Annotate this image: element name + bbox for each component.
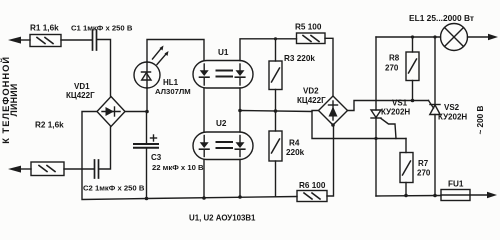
svg-text:22 мкФ х 10 В: 22 мкФ х 10 В (152, 163, 204, 172)
resistor R1 (30, 35, 61, 47)
wire VD1 right vertex to node A (125, 111, 147, 113)
svg-text:HL1: HL1 (163, 78, 179, 87)
capacitor C1 (93, 30, 97, 50)
bridge rectifier VD1 (97, 97, 125, 127)
arrow mains top (468, 34, 499, 40)
wire R2 to C2 (64, 168, 94, 170)
lamp EL1 (441, 24, 468, 51)
svg-text:270: 270 (385, 64, 399, 73)
wire node A up to HL1 (146, 88, 148, 112)
bottom-right rail (376, 195, 441, 198)
svg-text:FU1: FU1 (448, 180, 464, 189)
wire U2 photo pin down to bottom rail (239, 160, 241, 198)
svg-text:КУ202Н: КУ202Н (381, 108, 410, 117)
LED HL1 (134, 62, 160, 88)
arrow to telephone line (bottom) (8, 166, 31, 173)
wire VD2 left vertex to R7/VS1 gate node (312, 111, 406, 139)
wire U2 led pin down to bottom rail (203, 160, 205, 199)
thyristor VS2 gate wire (429, 101, 434, 109)
VD2 bottom junction dot (331, 123, 335, 127)
optocoupler U2 (193, 132, 253, 160)
wire U1 photo pin down to U2 (239, 88, 241, 132)
svg-text:R8: R8 (389, 54, 400, 63)
wire R6 to VD2 bottom (327, 125, 334, 196)
resistor R5 (297, 33, 326, 44)
arrow mains bottom (470, 192, 497, 198)
svg-text:VS1: VS1 (392, 99, 408, 108)
svg-text:U1, U2 АОУ103В1: U1, U2 АОУ103В1 (189, 214, 256, 223)
resistor R6 (297, 191, 327, 202)
svg-text:R4: R4 (289, 139, 300, 148)
wire HL1 up to top-left rail (147, 40, 204, 63)
svg-text:С3: С3 (151, 153, 162, 162)
svg-text:КЦ422Г: КЦ422Г (297, 96, 326, 105)
svg-text:R1 1,6k: R1 1,6k (30, 24, 59, 33)
resistor R2 (31, 162, 64, 176)
svg-text:U2: U2 (216, 119, 227, 128)
top-right rail (376, 36, 441, 38)
thyristor VS2 (430, 37, 440, 196)
svg-text:220k: 220k (286, 148, 305, 157)
resistor R8 (406, 37, 419, 101)
svg-text:R3 220k: R3 220k (284, 54, 315, 63)
wire R5 to VD2 top (325, 38, 333, 96)
wire VD2 right vertex to VS2 gate (348, 101, 429, 111)
wire U1 led pin down to U2 (203, 88, 205, 132)
svg-text:R7: R7 (418, 159, 429, 168)
svg-text:270: 270 (417, 169, 431, 178)
wire R1 to C1 (61, 39, 92, 41)
svg-text:U1: U1 (218, 48, 229, 57)
wire U1 photo pin up to mid rail (240, 39, 297, 61)
fuse FU1 (441, 190, 470, 201)
thyristor VS1 (371, 37, 381, 196)
svg-text:R6 100: R6 100 (299, 181, 326, 190)
node A junction dot (145, 110, 149, 114)
wire C1 to VD1 top (98, 40, 111, 97)
svg-text:R5 100: R5 100 (295, 23, 322, 32)
svg-text:~ 200 В: ~ 200 В (476, 106, 485, 135)
resistor R7 (400, 139, 413, 196)
svg-text:КЦ422Г: КЦ422Г (66, 91, 95, 100)
HL1 emission arrows (153, 46, 169, 65)
svg-text:АЛ307ЛМ: АЛ307ЛМ (155, 87, 191, 96)
svg-text:VD1: VD1 (74, 82, 90, 91)
optocoupler U1 (193, 61, 253, 89)
svg-text:EL1 25...2000 Вт: EL1 25...2000 Вт (409, 13, 474, 23)
capacitor C3 (electrolytic) (134, 135, 158, 148)
wire VD1 left vertex down to bottom rail (82, 112, 147, 200)
svg-text:VD2: VD2 (303, 87, 319, 96)
resistor R4 (269, 111, 282, 197)
arrow to telephone line (top) (8, 37, 30, 44)
VS1 gate wire (381, 119, 396, 139)
svg-text:R2 1,6k: R2 1,6k (35, 121, 64, 130)
junction dot VS1 cathode wire (374, 137, 377, 140)
node B wire (U chain mid to VD2 left) (240, 111, 312, 112)
wire C2 to VD1 bottom vertex (100, 127, 111, 169)
capacitor C2 (95, 160, 99, 178)
wire node A down to C3 (146, 112, 148, 144)
svg-text:КУ202Н: КУ202Н (438, 113, 467, 122)
resistor R3 (269, 37, 282, 111)
bottom-left rail (147, 197, 298, 199)
svg-text:VS2: VS2 (444, 103, 460, 112)
svg-text:С2 1мкФ х 250 В: С2 1мкФ х 250 В (83, 184, 145, 193)
wire C3 down to bottom rail (146, 149, 148, 199)
svg-text:ЛИНИИ: ЛИНИИ (9, 84, 19, 117)
bridge rectifier VD2 (319, 96, 348, 125)
svg-text:С1 1мкФ х 250 В: С1 1мкФ х 250 В (71, 24, 133, 33)
